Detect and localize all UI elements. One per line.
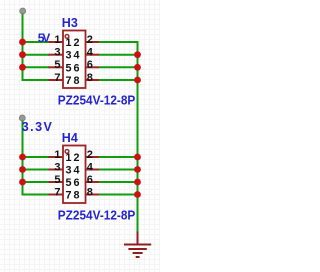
svg-text:5: 5 (54, 59, 60, 71)
wire: 5V to H3 pin 1 (23, 41, 50, 43)
wire: 3.3V to H4 pin 1 (23, 156, 50, 158)
svg-text:4: 4 (73, 165, 79, 177)
H3 pin-1 marker circle (65, 35, 69, 39)
wire: 3.3V vertical bus with corner to H4 pin 7 (23, 121, 50, 195)
svg-text:H4: H4 (62, 131, 78, 145)
svg-text:3: 3 (65, 165, 71, 177)
svg-text:2: 2 (87, 149, 93, 161)
H4 pin 5 stub (49, 181, 64, 183)
H3 pin 7 stub (49, 79, 64, 81)
junction on 5V bus at H3 pin 1 (19, 39, 26, 46)
H4 pin 6 stub (86, 181, 100, 183)
svg-text:6: 6 (87, 59, 93, 71)
wire: H3 pin 4 to GND bus (99, 54, 138, 56)
junction on 3.3V bus at H4 pin 1 (19, 154, 26, 161)
junction on 5V bus at H3 pin 5 (19, 64, 26, 71)
svg-text:1: 1 (65, 152, 71, 164)
svg-text:PZ254V-12-8P: PZ254V-12-8P (58, 93, 136, 108)
junction on 3.3V bus at H4 pin 3 (19, 166, 26, 173)
H4 pin-1 marker circle (65, 150, 69, 154)
svg-text:5: 5 (65, 177, 71, 189)
H3 pin 2 stub (86, 41, 100, 43)
svg-text:3: 3 (54, 161, 60, 173)
svg-text:5: 5 (54, 174, 60, 186)
H4 pin 7 stub (49, 194, 64, 196)
svg-text:4: 4 (87, 161, 94, 173)
svg-text:8: 8 (87, 72, 93, 84)
wire: 5V to H3 pin 5 (23, 66, 50, 68)
svg-text:7: 7 (65, 75, 71, 87)
svg-text:3.3V: 3.3V (22, 120, 53, 134)
wire: H3 pin 6 to GND bus (99, 66, 138, 68)
H4 body outline (63, 146, 86, 204)
H4 pin 2 stub (86, 156, 100, 158)
wire: H4 pin 2 to GND bus (99, 156, 138, 158)
wire: H3 pin 8 to GND bus (99, 79, 138, 81)
wire: 5V vertical bus with corner to H3 pin 7 (23, 14, 50, 81)
H3 pin 4 stub (86, 54, 100, 56)
svg-text:H3: H3 (62, 16, 78, 30)
junction on GND bus at H3 pin 6 (134, 64, 141, 71)
svg-text:8: 8 (73, 190, 79, 202)
svg-text:4: 4 (87, 47, 94, 59)
H3 pin 5 stub (49, 66, 64, 68)
svg-text:1: 1 (54, 149, 60, 161)
H3 pin 8 stub (86, 79, 100, 81)
svg-text:8: 8 (87, 186, 93, 198)
svg-text:6: 6 (73, 62, 79, 74)
header H4 (49, 131, 136, 223)
H3 pin 1 stub (49, 41, 64, 43)
junction on GND bus at H4 pin 4 (134, 166, 141, 173)
H4 pin 1 stub (49, 156, 64, 158)
svg-text:2: 2 (73, 37, 79, 49)
wire: H4 pin 8 to GND bus (99, 194, 138, 196)
H4 pin 3 stub (49, 169, 64, 171)
svg-text:1: 1 (54, 34, 60, 46)
junction on GND bus at H4 pin 8 (134, 191, 141, 198)
header H3 (49, 16, 136, 108)
junction on GND bus at H3 pin 4 (134, 51, 141, 58)
svg-text:5V: 5V (38, 31, 51, 45)
junction on 3.3V bus at H4 pin 5 (19, 179, 26, 186)
junction on 5V bus at H3 pin 3 (19, 51, 26, 58)
wire: 5V to H3 pin 3 (23, 54, 50, 56)
svg-text:6: 6 (73, 177, 79, 189)
H3 body outline (63, 31, 86, 89)
svg-text:5: 5 (65, 62, 71, 74)
wire: 3.3V to H4 pin 5 (23, 181, 50, 183)
wire: GND vertical bus from H3 pin 2 down to ground (99, 42, 138, 233)
junction on GND bus at H4 pin 6 (134, 179, 141, 186)
svg-text:8: 8 (73, 75, 79, 87)
H4 pin 4 stub (86, 169, 100, 171)
svg-text:7: 7 (54, 186, 60, 198)
svg-text:PZ254V-12-8P: PZ254V-12-8P (58, 208, 136, 223)
svg-text:2: 2 (73, 152, 79, 164)
svg-text:7: 7 (65, 190, 71, 202)
wire: H4 pin 4 to GND bus (99, 169, 138, 171)
H3 pin 3 stub (49, 54, 64, 56)
svg-text:4: 4 (73, 50, 79, 62)
H3 pin 6 stub (86, 66, 100, 68)
node: 5V net top endpoint (grey dot) (20, 8, 26, 14)
svg-text:2: 2 (87, 34, 93, 46)
svg-text:3: 3 (54, 47, 60, 59)
junction on GND bus at H3 pin 8 (134, 77, 141, 84)
svg-text:7: 7 (54, 72, 60, 84)
H4 pin 8 stub (86, 194, 100, 196)
junction on GND bus at H4 pin 2 (134, 154, 141, 161)
node: 3.3V net top endpoint (grey dot) (19, 115, 25, 121)
wire: 3.3V to H4 pin 3 (23, 169, 50, 171)
ground symbol (124, 232, 151, 258)
svg-text:3: 3 (65, 50, 71, 62)
wire: H4 pin 6 to GND bus (99, 181, 138, 183)
svg-text:6: 6 (87, 174, 93, 186)
svg-text:1: 1 (65, 37, 71, 49)
